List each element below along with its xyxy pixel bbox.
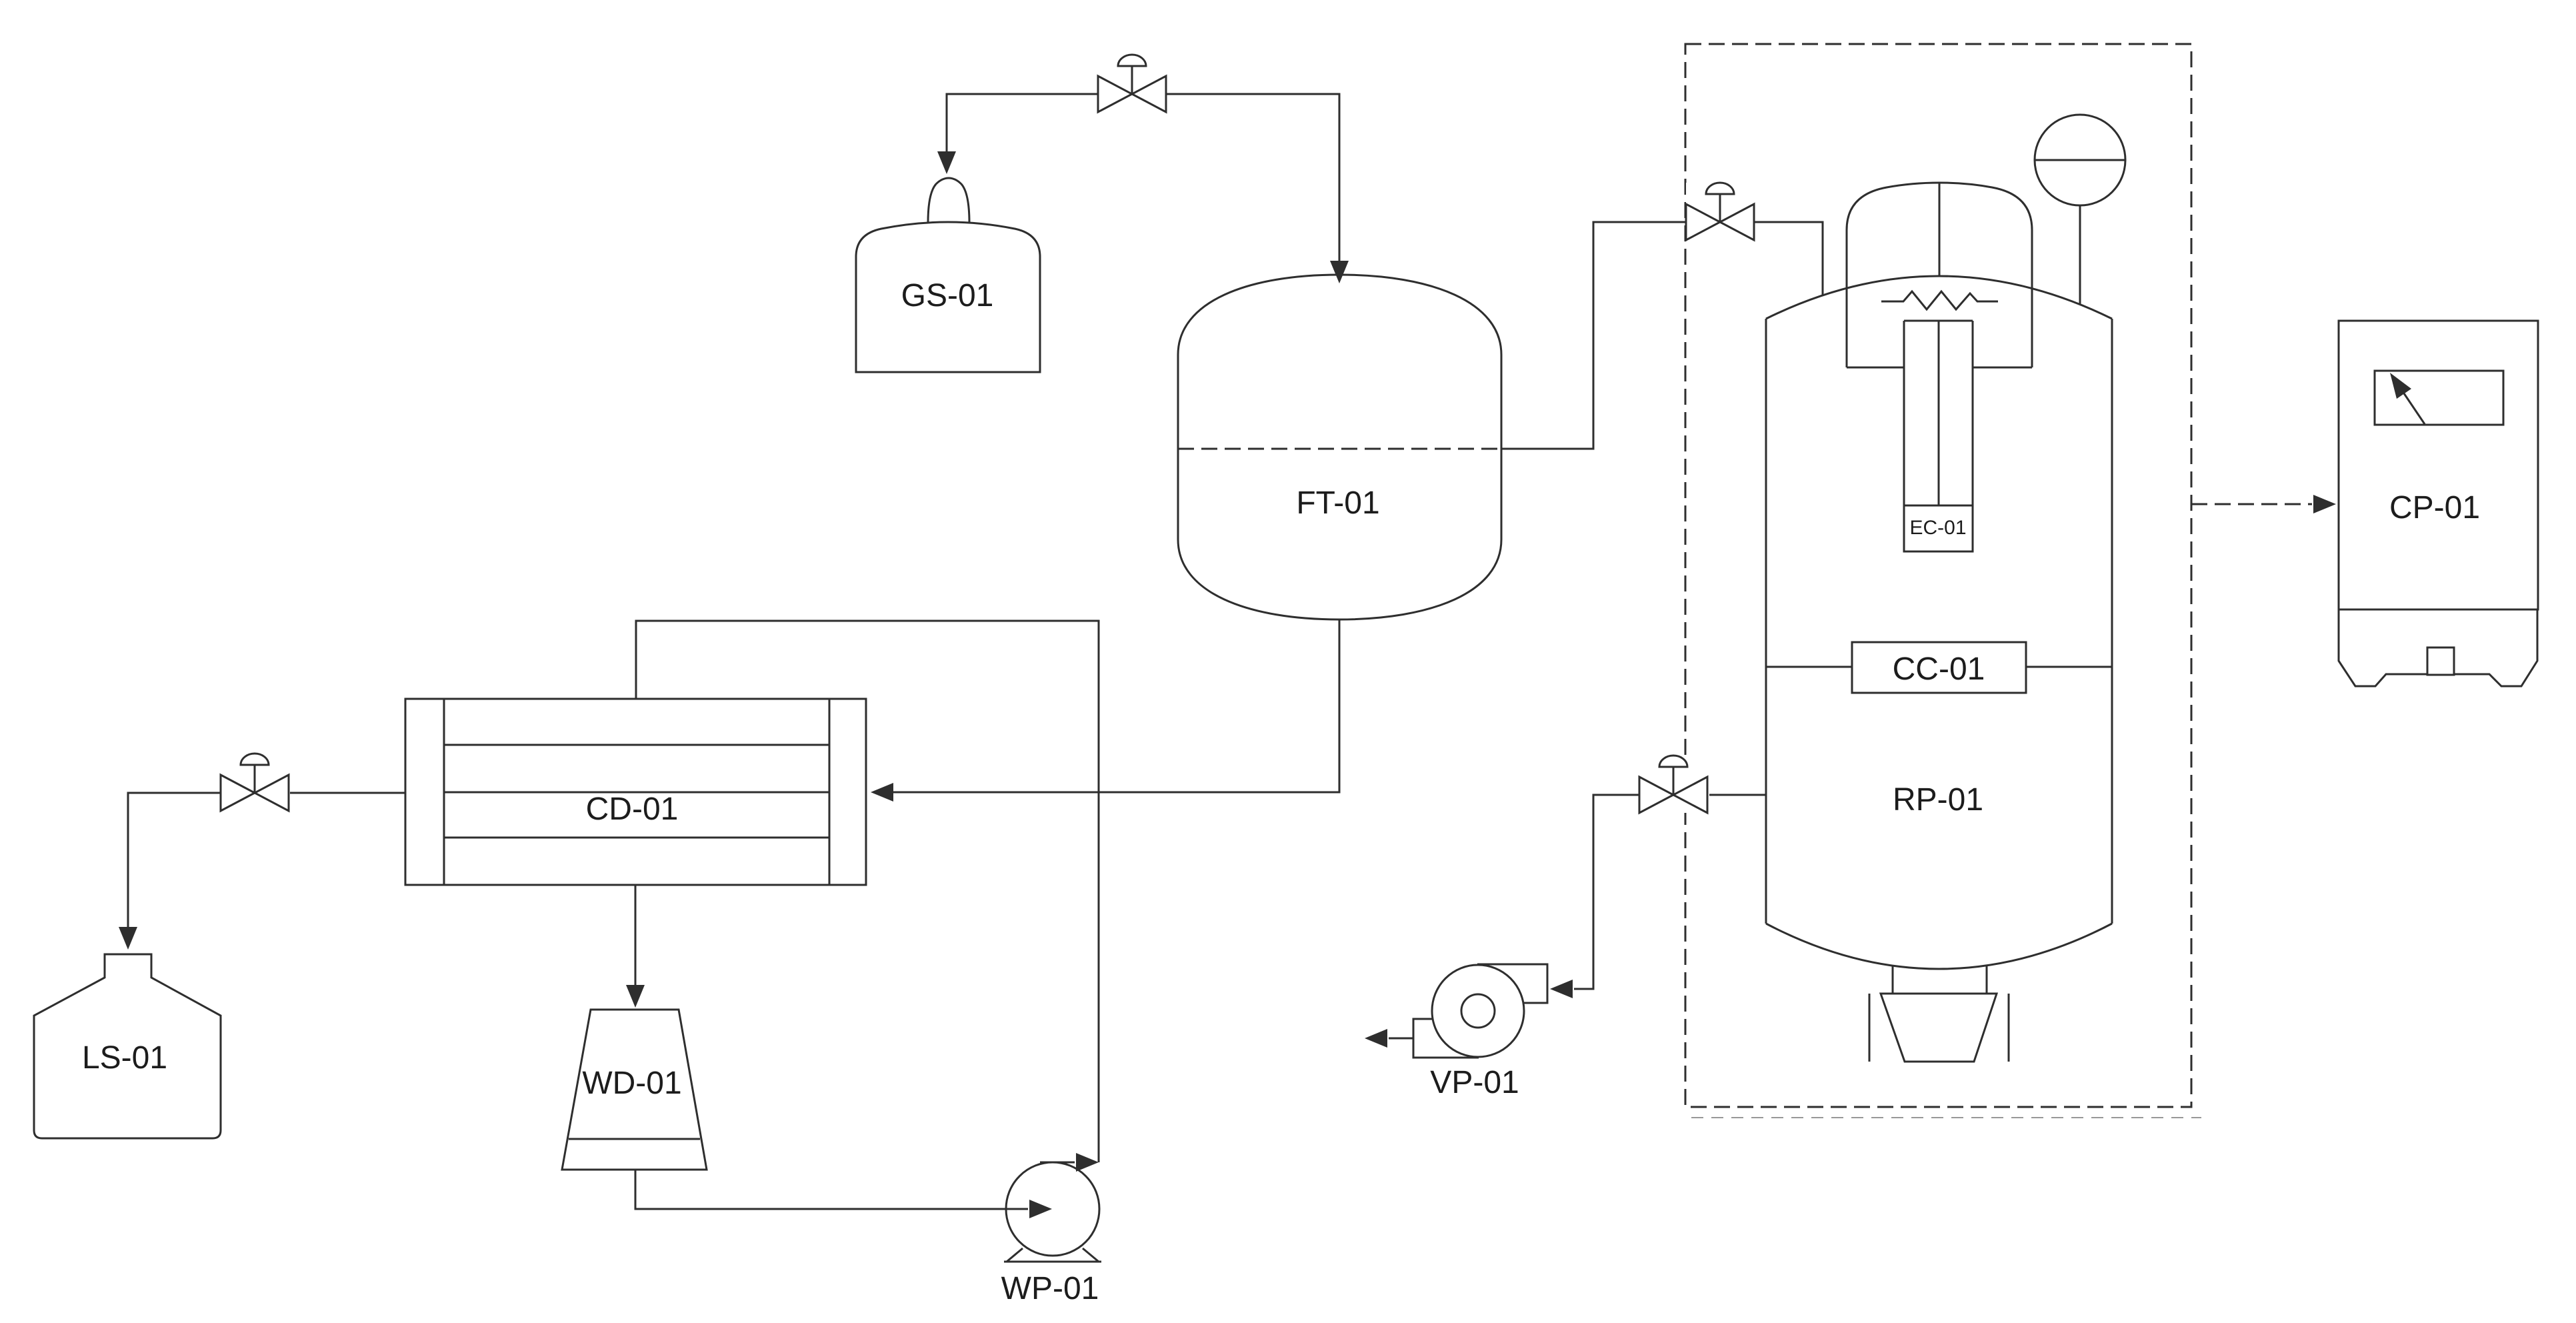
control coil CC-01 xyxy=(1852,642,2026,693)
liquid storage jug LS-01 xyxy=(34,954,221,1138)
WP-01 discharge wire xyxy=(1040,1162,1075,1164)
feed tank FT-01 xyxy=(1178,275,1501,619)
wire WD-01 to pump WP-01 xyxy=(635,1170,1028,1209)
valve V3 (condensate valve) xyxy=(221,754,289,811)
gas cylinder GS-01 xyxy=(856,222,1040,372)
arrow into GS-01 xyxy=(937,151,956,174)
svg-text:CC-01: CC-01 xyxy=(1893,651,1985,687)
wire valve V4 to vacuum pump VP-01 xyxy=(1574,795,1639,989)
faint shadow dashed line below enclosure xyxy=(1691,1117,2201,1118)
arrow into VP-01 flange xyxy=(1550,980,1573,998)
FT-01 liquid level (dashed) xyxy=(1178,448,1501,450)
CP-01 meter needle xyxy=(2404,393,2425,424)
wire valve V2 to reactor RP-01 xyxy=(1755,222,1823,295)
water drum WD-01 xyxy=(562,1010,707,1170)
wire valve V3 to LS-01 xyxy=(128,793,221,927)
svg-text:LS-01: LS-01 xyxy=(82,1040,167,1076)
RP-01 discharge trapezoid xyxy=(1881,994,1997,1062)
svg-text:WP-01: WP-01 xyxy=(1001,1271,1099,1306)
svg-text:RP-01: RP-01 xyxy=(1893,782,1983,818)
vacuum pump VP-01 xyxy=(1432,965,1524,1057)
valve V2 (reactor feed valve) xyxy=(1686,183,1754,240)
VP-01 exhaust wire xyxy=(1389,1038,1413,1040)
svg-text:VP-01: VP-01 xyxy=(1430,1065,1519,1100)
wire valve V1 to FT-01 top xyxy=(1167,94,1339,261)
water pump WP-01 xyxy=(1006,1162,1099,1256)
reactor package RP-01 shell xyxy=(1765,319,1767,924)
svg-text:FT-01: FT-01 xyxy=(1296,485,1379,521)
motor/gauge circle on reactor xyxy=(2035,115,2125,205)
wire CD-01 left to valve V3 xyxy=(290,792,405,794)
dashed enclosure box xyxy=(1685,44,2191,1107)
arrow into LS-01 xyxy=(119,927,137,950)
RP-01 bottom neck xyxy=(1892,966,1894,994)
inner head of reactor xyxy=(1847,183,2032,367)
GS-01 neck xyxy=(928,178,969,223)
wire GS-01 to valve V1 xyxy=(947,94,1098,152)
valve V1 (GS-01 feed valve) xyxy=(1098,55,1166,112)
wire FT-01 outlet to valve V2 xyxy=(1501,222,1686,449)
svg-text:EC-01: EC-01 xyxy=(1909,517,1966,539)
svg-text:WD-01: WD-01 xyxy=(582,1066,681,1101)
wire reactor to valve V4 xyxy=(1709,794,1766,796)
svg-text:CD-01: CD-01 xyxy=(586,792,679,827)
stirrer shaft line xyxy=(1939,183,1941,277)
heater zigzag xyxy=(1881,291,1998,309)
wire CD-01 bottom to WD-01 xyxy=(635,885,637,985)
dashed signal wire to CP-01 xyxy=(2191,503,2312,505)
control panel CP-01 xyxy=(2339,321,2538,609)
svg-text:CP-01: CP-01 xyxy=(2389,490,2480,525)
svg-text:GS-01: GS-01 xyxy=(901,278,994,313)
arrow into WP-01 xyxy=(1029,1200,1052,1218)
wire FT-01 bottom to condenser CD-01 xyxy=(893,619,1339,792)
arrow into CD-01 right side xyxy=(871,783,893,802)
discharge side ticks xyxy=(1869,994,1871,1062)
arrow into WD-01 xyxy=(626,985,645,1008)
recirculation wire up and over to CD-01 top xyxy=(636,621,1099,1162)
valve V4 (vacuum valve) xyxy=(1639,756,1707,813)
electric cartridge EC-01 tube xyxy=(1904,320,1973,322)
arrow into FT-01 xyxy=(1330,261,1349,283)
condenser CD-01 xyxy=(405,699,866,885)
CP-01 base with feet xyxy=(2339,609,2427,686)
